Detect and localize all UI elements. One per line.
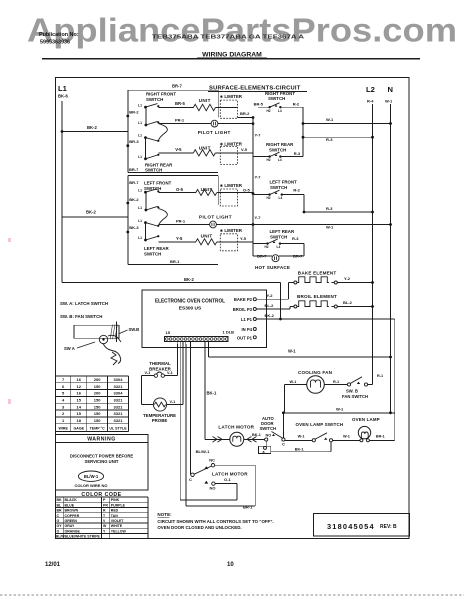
svg-text:UNIT: UNIT [199,145,211,150]
svg-text:REV: B: REV: B [380,524,397,530]
svg-text:BR-3: BR-3 [129,139,139,144]
wire BK-1 lamp return [271,451,331,453]
svg-text:150: 150 [94,397,101,402]
svg-text:W-1: W-1 [326,224,334,229]
svg-text:L1: L1 [138,188,142,192]
wire V-5 left [158,152,193,154]
wire gauge table [56,375,129,377]
svg-text:BK-2: BK-2 [86,210,96,215]
svg-text:150: 150 [94,411,101,416]
svg-text:V-1: V-1 [167,371,173,375]
svg-text:PILOT LIGHT: PILOT LIGHT [199,214,232,219]
svg-text:P: P [103,498,106,502]
svg-text:COOLING FAN: COOLING FAN [298,370,333,375]
svg-text:Y-5: Y-5 [240,236,247,241]
svg-text:W-1: W-1 [385,99,393,104]
svg-text:WARNING: WARNING [87,437,116,443]
svg-text:Y-7: Y-7 [255,133,262,138]
svg-text:OVEN LAMP: OVEN LAMP [352,417,380,422]
svg-text:O-1: O-1 [224,477,231,482]
svg-text:GY: GY [57,524,63,528]
svg-text:SW. B: SW. B [346,389,358,394]
svg-text:BROIL ELEMENT: BROIL ELEMENT [297,294,337,299]
svg-text:SWITCH: SWITCH [270,234,287,239]
svg-text:WIRING DIAGRAM: WIRING DIAGRAM [202,52,262,59]
wire PR-1 / pilot light 2 [158,224,209,226]
svg-text:BAKE P2: BAKE P2 [234,297,253,302]
wire BK-2 from L1 P1 to right side [257,318,395,320]
wire BK-2 branch 2 [62,216,128,218]
svg-text:C: C [189,477,192,482]
svg-text:BROWN: BROWN [65,509,79,513]
svg-text:WIRE: WIRE [58,426,68,430]
svg-text:BR: BR [57,509,63,513]
svg-text:BR-7: BR-7 [129,180,139,185]
svg-text:HOT SURFACE: HOT SURFACE [255,265,290,270]
svg-text:BK-3: BK-3 [129,225,139,230]
svg-text:3: 3 [62,404,65,409]
wire Y-2 from BAKE P2 [257,298,289,300]
wire BL-2 from BROIL P3 [257,308,290,310]
svg-text:ELECTRONIC OVEN CONTROL: ELECTRONIC OVEN CONTROL [155,298,225,304]
svg-text:LEFT REAR: LEFT REAR [144,246,169,251]
svg-text:∗ LIMITER: ∗ LIMITER [220,94,243,99]
svg-text:RIGHT REAR: RIGHT REAR [145,162,173,167]
svg-text:L1 P1: L1 P1 [241,317,253,322]
svg-text:18: 18 [77,418,82,423]
svg-text:BK-2: BK-2 [184,277,194,282]
svg-text:BK-1: BK-1 [252,433,261,437]
wire L1 rail BK-6 [61,101,63,283]
title underline [42,58,420,60]
svg-text:BLUE: BLUE [65,503,75,507]
svg-text:RIGHT REAR: RIGHT REAR [266,142,294,147]
op-amp U1 : electronic oven control ES300 [142,290,266,347]
color code table [56,489,149,491]
svg-text:BK-2: BK-2 [87,125,97,130]
svg-text:BK-1: BK-1 [207,391,217,396]
wire Y-5 left [158,241,196,243]
svg-text:R-1: R-1 [377,374,383,378]
scan marks left edge [8,238,11,242]
svg-text:L4: L4 [279,196,283,200]
wire R-3 row2 [304,211,373,213]
svg-text:BK-2: BK-2 [129,197,139,202]
svg-text:BLUE/WHITE STRIPE: BLUE/WHITE STRIPE [65,535,101,539]
wire W-1 mid bus [209,356,391,358]
svg-text:TEMP °C: TEMP °C [90,426,105,430]
svg-text:15: 15 [166,330,171,335]
wire right return vertical [394,319,396,440]
svg-text:7: 7 [62,377,65,382]
svg-text:R-3: R-3 [326,137,333,142]
svg-text:BLACK: BLACK [65,498,78,502]
svg-text:Y: Y [103,529,106,533]
svg-text:IN P4: IN P4 [242,327,253,332]
switch linkage box1 [159,124,168,141]
svg-text:L4: L4 [277,245,281,249]
svg-text:150: 150 [94,418,101,423]
svg-text:BR-7: BR-7 [172,84,182,89]
svg-text:BR-7: BR-7 [257,254,267,259]
svg-text:PR-1: PR-1 [175,117,185,122]
svg-text:150: 150 [94,404,101,409]
fan switch SW B [347,383,350,386]
svg-text:∗ LIMITER: ∗ LIMITER [220,183,243,188]
svg-text:R-3: R-3 [326,206,333,211]
svg-text:ES300 US: ES300 US [179,306,202,312]
svg-text:BR-2: BR-2 [129,109,139,114]
wire W-1 lamp top [283,412,394,414]
svg-text:W-1: W-1 [288,349,296,354]
svg-text:V-1: V-1 [170,400,176,404]
svg-text:L4: L4 [278,158,282,162]
svg-text:LEFT FRONT: LEFT FRONT [144,180,172,185]
svg-text:14: 14 [77,404,82,409]
svg-text:GAGE: GAGE [73,426,84,430]
svg-text:GRAY: GRAY [65,524,75,528]
svg-text:BR-7: BR-7 [293,253,303,258]
svg-text:YELLOW: YELLOW [111,529,127,533]
svg-text:V-5: V-5 [241,147,248,152]
svg-text:BL-2: BL-2 [265,303,275,308]
svg-text:PROBE: PROBE [152,418,168,423]
svg-text:AppliancePartsPros.com: AppliancePartsPros.com [27,12,457,49]
svg-text:O: O [57,529,60,533]
svg-text:BK-1: BK-1 [295,448,304,452]
svg-text:PURPLE: PURPLE [111,503,126,507]
svg-text:BR-7: BR-7 [129,167,139,172]
svg-text:16: 16 [77,391,82,396]
svg-text:PR-1: PR-1 [176,218,186,223]
svg-text:L1: L1 [138,103,142,107]
temperature probe [142,404,154,406]
svg-text:12: 12 [77,384,82,389]
svg-text:BR-1: BR-1 [243,504,253,509]
svg-text:L2: L2 [366,85,375,94]
svg-text:1: 1 [62,418,65,423]
svg-text:4: 4 [62,397,65,402]
svg-text:R-2: R-2 [293,102,300,107]
wire R-3 row1 [303,136,373,138]
svg-text:SWITCH: SWITCH [146,97,163,102]
wire BK-2 branch 1 [62,131,128,133]
svg-text:Y-7: Y-7 [255,175,262,180]
svg-text:Y-7: Y-7 [255,215,262,220]
svg-text:PR: PR [103,503,108,507]
svg-text:W-1: W-1 [298,434,305,438]
wire BR-2 to rail [238,117,254,119]
svg-text:O-5: O-5 [176,187,184,192]
svg-text:1 DLB: 1 DLB [223,329,235,334]
svg-text:OVEN DOOR CLOSED AND UNLOCKED.: OVEN DOOR CLOSED AND UNLOCKED. [157,525,241,530]
svg-text:15: 15 [77,397,82,402]
svg-text:BL: BL [57,503,63,507]
wire Y-5 right to rail [238,241,254,243]
svg-text:SW A: SW A [64,346,75,351]
svg-text:Y-2: Y-2 [267,293,274,298]
svg-text:V-5: V-5 [175,147,182,152]
wire BR-5 [158,107,193,109]
wire NC loop [215,464,256,466]
svg-text:3321: 3321 [114,397,124,402]
corner to hot surface row [253,255,272,257]
svg-text:NO: NO [210,485,216,490]
wire vertical right column 2 [303,195,305,212]
bottom scan line [0,594,464,596]
svg-text:NC: NC [209,457,215,462]
svg-text:6: 6 [62,384,65,389]
wire BK-2 bus bottom [62,282,281,284]
svg-text:H2: H2 [265,245,269,249]
svg-text:BR-5: BR-5 [175,101,185,106]
svg-text:R-1: R-1 [333,380,339,384]
svg-text:SWITCH: SWITCH [269,147,286,152]
svg-text:Y-2: Y-2 [344,276,351,281]
svg-text:150: 150 [94,384,101,389]
outer frame border [56,78,410,539]
svg-text:H2: H2 [267,196,271,200]
part number box [314,514,410,537]
svg-text:LATCH MOTOR: LATCH MOTOR [218,425,254,430]
svg-text:3304: 3304 [114,391,124,396]
svg-text:LEFT REAR: LEFT REAR [270,229,295,234]
svg-text:GREEN: GREEN [65,519,78,523]
wire fan W-1 drop [284,385,286,413]
warning box [56,435,149,490]
svg-text:O-5: O-5 [243,188,250,193]
svg-text:BR-1: BR-1 [170,259,180,264]
svg-text:UL STYLE: UL STYLE [109,426,127,430]
wire V-1 left drop [141,376,143,405]
wire vertical right column 2b [303,244,305,256]
wire BK-1 drop [204,342,206,440]
label BL/W-1 oval [78,471,103,481]
svg-text:UNIT: UNIT [201,233,213,238]
svg-text:318045054: 318045054 [327,522,375,531]
svg-text:BK: BK [57,498,63,502]
svg-text:RIGHT FRONT: RIGHT FRONT [265,91,295,96]
latch mechanism drawing [74,325,119,338]
svg-text:WHITE: WHITE [111,524,123,528]
svg-text:W-1: W-1 [290,380,297,384]
svg-text:15: 15 [77,411,82,416]
wire W-1 drop [208,342,210,358]
svg-text:Y-5: Y-5 [176,236,183,241]
svg-text:T: T [103,514,106,518]
svg-text:BR-5: BR-5 [254,101,264,106]
svg-text:SWITCH: SWITCH [144,251,161,256]
svg-text:∗ LIMITER: ∗ LIMITER [220,142,243,147]
svg-text:L1: L1 [58,84,68,93]
svg-text:L1: L1 [138,155,142,159]
svg-text:BR-1: BR-1 [376,434,385,438]
wire V-5 right to rail [238,152,254,154]
wire O-5 left [158,192,196,194]
svg-text:RED: RED [111,509,119,513]
svg-text:TEB375ABA TEB377ABA GA TEF36: TEB375ABA TEB377ABA GA TEF367A A [152,34,304,40]
svg-text:BAKE ELEMENT: BAKE ELEMENT [298,270,337,275]
svg-text:SWITCH: SWITCH [260,426,277,431]
wire W-1 row2 [253,224,391,226]
switch box 2 outline [128,175,218,177]
svg-text:L1: L1 [138,236,142,240]
svg-text:L4: L4 [278,109,282,113]
wire BK-2 bus drop [280,283,282,320]
svg-text:G: G [57,519,60,523]
svg-text:SW.B: SW.B [129,327,140,332]
svg-text:SW. A: LATCH SWITCH: SW. A: LATCH SWITCH [60,301,108,306]
svg-text:5995363936: 5995363936 [40,39,70,45]
svg-text:BROIL P3: BROIL P3 [233,307,253,312]
svg-text:W-1: W-1 [343,434,350,438]
svg-text:BR-2: BR-2 [240,111,250,116]
wire W-1 row1 [303,123,391,125]
svg-text:V-1: V-1 [145,371,151,375]
svg-text:5: 5 [62,391,65,396]
svg-text:COLOR WIRE NO: COLOR WIRE NO [74,483,107,488]
svg-text:L1: L1 [138,121,142,125]
wire rail Y-7 vertical [252,118,254,256]
svg-text:DISCONNECT POWER BEFORE: DISCONNECT POWER BEFORE [70,453,133,458]
wire C drop from W-1 [282,413,284,438]
svg-text:12/01: 12/01 [45,562,61,568]
svg-text:W-1: W-1 [336,406,344,411]
wire O-5 right to rail [238,192,253,194]
svg-text:SW. B: FAN SWITCH: SW. B: FAN SWITCH [60,314,102,319]
svg-text:R-4: R-4 [367,99,374,104]
svg-text:W: W [103,524,107,528]
svg-text:CIRCUIT SHOWN WITH ALL CONTROL: CIRCUIT SHOWN WITH ALL CONTROLS SET TO “… [157,519,273,524]
svg-text:R: R [103,509,106,513]
svg-text:BL-2: BL-2 [343,300,353,305]
svg-text:C: C [282,441,285,446]
svg-text:3321: 3321 [114,404,124,409]
switch linkage box2 [159,209,168,226]
svg-text:NO: NO [266,434,272,438]
svg-text:SERVICING UNIT: SERVICING UNIT [85,459,119,464]
svg-text:3321: 3321 [114,418,124,423]
svg-text:PINK: PINK [111,498,120,502]
connector strip P [165,337,229,342]
switch box 1 outline [128,89,218,91]
svg-text:L1: L1 [138,219,142,223]
svg-text:R-2: R-2 [293,187,300,192]
svg-text:COPPER: COPPER [65,514,80,518]
svg-text:3304: 3304 [114,377,124,382]
svg-text:PILOT LIGHT: PILOT LIGHT [198,130,231,135]
svg-text:3321: 3321 [114,411,124,416]
svg-text:W-1: W-1 [326,117,334,122]
wire N rail W-1 [390,104,392,413]
svg-text:LATCH MOTOR: LATCH MOTOR [212,471,248,476]
svg-text:OUT P1: OUT P1 [237,335,253,340]
svg-text:V: V [103,519,106,523]
svg-text:∗ LIMITER: ∗ LIMITER [220,228,243,233]
door lock plunger [259,446,271,453]
svg-text:SWITCH: SWITCH [268,96,285,101]
svg-text:RIGHT FRONT: RIGHT FRONT [146,92,176,97]
svg-text:3321: 3321 [114,384,124,389]
svg-text:BL/W-1: BL/W-1 [196,449,210,454]
svg-text:16: 16 [77,377,82,382]
svg-text:TAN: TAN [111,514,118,518]
svg-text:VIOLET: VIOLET [111,519,125,523]
svg-text:OVEN LAMP SWITCH: OVEN LAMP SWITCH [296,422,344,427]
wire L2 rail R-4 [372,104,374,385]
wire NO loop [215,483,237,485]
svg-text:L1: L1 [138,134,142,138]
svg-text:200: 200 [94,391,101,396]
svg-text:200: 200 [94,377,101,382]
svg-text:NOTE:: NOTE: [157,512,172,517]
svg-text:ORANGE: ORANGE [65,529,81,533]
svg-text:BK-2: BK-2 [265,313,275,318]
publication number text [39,32,79,46]
svg-text:2: 2 [62,411,65,416]
svg-text:C: C [57,514,60,518]
wire PR-1 / pilot light 1 [158,123,211,125]
svg-text:L1: L1 [138,206,142,210]
svg-text:UNIT: UNIT [199,98,211,103]
wire vertical right column 1 [302,107,304,156]
svg-text:BK-6: BK-6 [58,94,68,99]
svg-text:10: 10 [227,562,234,568]
svg-text:SWITCH: SWITCH [145,168,162,173]
svg-text:R-3: R-3 [292,236,299,241]
svg-text:FAN SWITCH: FAN SWITCH [342,394,368,399]
svg-text:N: N [388,85,393,94]
svg-text:Publication No:: Publication No: [39,32,79,38]
svg-text:R-3: R-3 [294,151,301,156]
svg-text:H2: H2 [267,158,271,162]
pilot light hot surface [272,255,279,262]
svg-text:H2: H2 [267,109,271,113]
svg-text:THERMAL: THERMAL [149,361,171,366]
svg-text:BL/W-1: BL/W-1 [84,474,99,479]
door lock switch NO [204,481,208,484]
wire bundle pin drops [176,342,178,345]
svg-text:SWITCH: SWITCH [270,185,287,190]
